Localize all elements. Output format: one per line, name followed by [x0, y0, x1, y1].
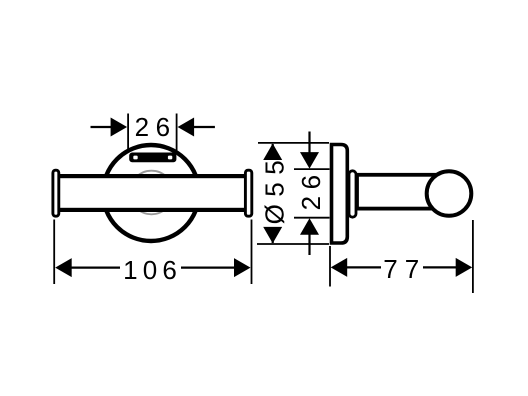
svg-text:77: 77	[383, 254, 426, 284]
bar body	[56, 176, 248, 210]
dim 77: line left segment	[346, 266, 381, 268]
svg-text:106: 106	[123, 255, 182, 285]
dim 26 right: extension line top	[294, 168, 330, 170]
ball end	[427, 171, 472, 216]
dim 26 top: left leader	[91, 126, 113, 128]
svg-text:26: 26	[296, 168, 326, 210]
dim 26 top: extension line left	[127, 114, 129, 153]
dim 106: extension line right	[251, 220, 253, 285]
dim 77: extension line left	[329, 246, 331, 287]
dim 26 right: top leader	[308, 132, 310, 156]
dim 26 top: right leader	[193, 126, 215, 128]
dim 77: right arrow	[456, 258, 473, 277]
dim O55: line top segment	[272, 144, 274, 158]
dim 26 right: top arrow	[300, 152, 319, 169]
dim 26 right: bottom leader	[308, 233, 310, 255]
mounting bracket	[129, 153, 176, 163]
dim O55: arrow up	[263, 144, 282, 161]
dim 77: left arrow	[331, 258, 348, 277]
svg-text:Ø55: Ø55	[259, 153, 289, 225]
arm	[357, 175, 450, 209]
collar	[349, 171, 356, 217]
dim 26 right: bottom arrow	[300, 218, 319, 235]
left end cap	[53, 170, 59, 216]
dim O55: extension line bottom	[257, 243, 329, 245]
bracket hole right	[168, 156, 172, 160]
dim O55: arrow down	[263, 227, 282, 244]
dim 26 top: left arrow	[111, 118, 128, 137]
dim 106: line left segment	[70, 267, 120, 269]
dim 26 right: extension line bottom	[294, 217, 330, 219]
dim 77: extension line right	[472, 220, 474, 293]
inner boss circle (faint)	[130, 171, 174, 215]
dim 106: extension line left	[53, 220, 55, 285]
wall plate circle	[103, 145, 199, 241]
wall plate side profile	[332, 145, 348, 244]
bracket hole left	[133, 156, 137, 160]
dim 26 top: extension line right	[176, 114, 178, 153]
dim 26 top: right arrow	[178, 118, 195, 137]
dim O55: line bottom segment	[272, 228, 274, 243]
dim 77: line right segment	[423, 266, 457, 268]
dim 106: left arrow	[55, 258, 71, 277]
svg-text:26: 26	[135, 112, 177, 142]
dim O55: extension line top	[258, 142, 329, 144]
dim 106: line right segment	[181, 267, 236, 269]
right end cap	[245, 170, 251, 216]
dim 106: right arrow	[234, 258, 251, 277]
